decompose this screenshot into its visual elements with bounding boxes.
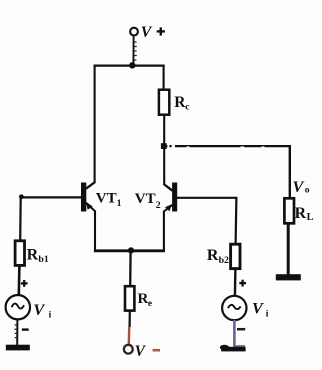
svg-text:b2: b2	[219, 255, 229, 266]
label Rb2	[207, 247, 229, 266]
wire collector VT1 vertical	[94, 65, 96, 183]
svg-text:V: V	[135, 343, 147, 360]
svg-text:VT: VT	[96, 190, 117, 206]
label V+	[141, 24, 165, 41]
wire Re down red	[128, 327, 131, 345]
svg-text:c: c	[185, 103, 189, 113]
node dot top rail	[129, 62, 135, 68]
wire source left to ground	[14, 319, 17, 345]
svg-text:e: e	[148, 299, 152, 309]
resistor Rc	[159, 90, 169, 115]
svg-text:V: V	[252, 300, 264, 318]
ground right	[220, 345, 246, 352]
wire right vertical	[235, 197, 238, 245]
ground output	[276, 274, 301, 280]
node corner left	[19, 194, 24, 199]
svg-text:V: V	[33, 301, 45, 319]
wire left vertical	[19, 197, 22, 242]
power terminal V+	[130, 28, 138, 65]
label minus right	[237, 328, 245, 331]
node dot emitter bus	[128, 247, 134, 253]
resistor RL	[284, 198, 294, 223]
terminal V-	[124, 345, 133, 354]
svg-text:o: o	[305, 186, 310, 196]
svg-text:V: V	[141, 24, 153, 41]
label VT1	[96, 190, 122, 209]
svg-text:L: L	[307, 212, 314, 223]
label minus left	[22, 328, 29, 330]
wire top rail	[94, 64, 165, 66]
svg-text:R: R	[138, 291, 149, 307]
wire source right to ground blue	[233, 320, 236, 347]
label Rc	[174, 94, 189, 112]
resistor Rb1	[15, 241, 24, 266]
resistor Re	[125, 286, 134, 310]
node dot collector VT2	[161, 143, 167, 149]
wire Rb1 to source	[17, 265, 20, 295]
svg-text:V: V	[293, 178, 305, 196]
wire VT2 emitter drop	[163, 211, 165, 252]
source Vi left	[6, 295, 30, 319]
svg-text:VT: VT	[135, 191, 156, 207]
label Re	[138, 291, 153, 309]
svg-text:b1: b1	[38, 254, 48, 265]
label VT2	[135, 191, 161, 211]
ground left	[6, 345, 30, 351]
svg-text:R: R	[295, 205, 307, 222]
wire Re down black	[129, 310, 131, 327]
svg-text:R: R	[27, 246, 39, 263]
source Vi right	[222, 296, 246, 320]
label Vi left	[33, 301, 51, 321]
wire emitter bus	[94, 249, 165, 252]
wire Rb2 to source	[234, 268, 237, 296]
wire Rc top vertical	[163, 65, 165, 91]
wire output drop	[289, 145, 291, 199]
svg-text:1: 1	[117, 198, 122, 209]
wire Rc to node	[163, 115, 165, 146]
svg-text:i: i	[49, 311, 52, 321]
label Vi right	[252, 300, 269, 320]
label RL	[295, 205, 314, 223]
wire output node line	[164, 145, 292, 149]
resistor Rb2	[231, 244, 240, 268]
wire VT2 collector vertical	[163, 147, 165, 185]
transistor VT2	[164, 183, 178, 212]
wire RL to ground	[287, 223, 290, 276]
wire VT1 emitter drop	[94, 211, 96, 252]
label plus right	[239, 280, 246, 287]
svg-text:2: 2	[156, 200, 161, 211]
svg-text:i: i	[266, 310, 269, 320]
label V-	[135, 343, 160, 360]
label Vo	[293, 178, 310, 196]
wire VT2 base	[177, 197, 237, 199]
svg-text:R: R	[207, 247, 219, 264]
wire bus to Re	[129, 251, 132, 287]
wire VT1 base	[20, 196, 81, 198]
label Rb1	[27, 246, 49, 264]
label plus left	[21, 280, 28, 287]
transistor VT1	[81, 182, 95, 212]
